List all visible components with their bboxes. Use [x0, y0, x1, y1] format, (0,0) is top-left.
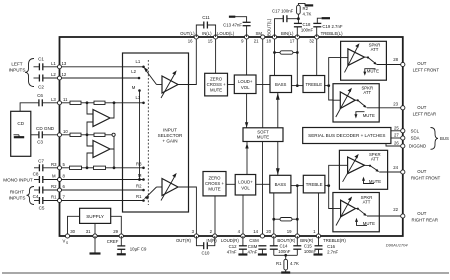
capacitor C13 47nF [223, 17, 250, 37]
svg-text:C2: C2 [38, 85, 44, 90]
svg-text:D96AU1704: D96AU1704 [386, 242, 409, 247]
wire M row to contact [62, 179, 144, 181]
pin 18 BOUT(L) [266, 18, 276, 43]
ground C16 [314, 253, 323, 255]
pin 6 R2 [51, 184, 66, 192]
loud vol block R [235, 175, 256, 196]
pin 21 SM [254, 31, 265, 44]
svg-text:ZERO: ZERO [210, 76, 223, 81]
svg-text:100nF: 100nF [278, 249, 291, 254]
pin 14 CSM [249, 229, 264, 243]
zero cross mute block R [203, 172, 226, 196]
mute arrow 4 [355, 218, 375, 227]
spkr att label 3 [369, 152, 381, 162]
svg-text:31: 31 [86, 229, 91, 234]
svg-text:CROSS +: CROSS + [207, 82, 226, 87]
svg-text:TREBLE(R): TREBLE(R) [323, 238, 346, 243]
input selector block [123, 53, 189, 212]
spkr att label 2 [361, 85, 373, 95]
svg-text:L2: L2 [131, 69, 136, 74]
wire switch 2 to pin 23 [367, 107, 403, 109]
capacitor C11 [196, 15, 215, 37]
svg-text:19: 19 [287, 229, 292, 234]
svg-text:SELECTOR: SELECTOR [158, 133, 183, 138]
svg-text:IN(L): IN(L) [202, 31, 212, 36]
wire L2 row to contact [62, 77, 140, 79]
soft mute block [243, 128, 283, 142]
svg-text:13: 13 [62, 61, 67, 66]
wire junction down to spkr2 input [329, 86, 333, 100]
junction mono row [138, 178, 141, 181]
capacitor C12 47nF [227, 236, 247, 254]
attenuator amp 4 [333, 197, 356, 226]
wire supply to pin 30 [68, 216, 80, 236]
contact R2 [136, 184, 145, 192]
svg-text:RIGHT FRONT: RIGHT FRONT [411, 175, 441, 180]
resistor row5 b [94, 166, 106, 169]
supply block [80, 208, 111, 223]
svg-text:23: 23 [393, 101, 398, 106]
wire zero cross L to loud vol L [228, 84, 235, 86]
page footer rule [2, 272, 449, 274]
svg-text:C15: C15 [304, 243, 312, 248]
pin 10 CD GND [58, 129, 69, 137]
spkr att block 2 left rear [333, 84, 379, 122]
svg-text:SDA: SDA [411, 136, 420, 141]
wire treble L output to right junction [325, 84, 330, 87]
svg-text:C4: C4 [33, 194, 39, 199]
svg-text:CREF: CREF [107, 239, 119, 244]
svg-text:OUT: OUT [417, 61, 426, 66]
svg-text:LOUD+: LOUD+ [238, 179, 253, 184]
svg-text:OUT: OUT [417, 211, 426, 216]
svg-text:LOUD(R): LOUD(R) [221, 238, 239, 243]
svg-text:L2: L2 [51, 72, 56, 77]
capacitor C6 [37, 93, 43, 106]
wire switch 4 to pin 22 [367, 215, 403, 217]
resistor R1 4.7K [276, 255, 299, 272]
svg-text:MUTE: MUTE [369, 179, 381, 184]
left inputs brace [25, 59, 34, 87]
wire op-amp2 output feedback [110, 137, 114, 150]
wire loud vol L to bass L [256, 84, 270, 86]
svg-text:L3: L3 [51, 97, 56, 102]
wire node A to op-amp1 input [87, 103, 93, 114]
svg-text:R3: R3 [136, 161, 142, 166]
treble block L [303, 76, 325, 93]
wire switch 3 to pin 24 [379, 171, 403, 173]
svg-text:MUTE: MUTE [363, 113, 375, 118]
svg-text:26: 26 [394, 141, 399, 146]
bus brace [431, 128, 439, 150]
right inputs brace [27, 187, 35, 205]
ground pin 31 [90, 236, 101, 254]
capacitor C7 [38, 158, 44, 171]
wire serial to pin 25 [391, 130, 403, 132]
capacitor C14 100nF [270, 236, 291, 255]
mute switch 3 [365, 165, 380, 172]
contact M bottom [138, 173, 145, 181]
contact L1 [136, 59, 145, 68]
svg-text:11: 11 [63, 97, 68, 102]
svg-text:29: 29 [113, 229, 118, 234]
svg-text:OUT(R): OUT(R) [176, 238, 192, 243]
svg-text:LOUD(L): LOUD(L) [217, 31, 235, 36]
attenuator amp 1 [341, 43, 365, 72]
pin 2 IN(R) [206, 229, 217, 243]
pin 32 TREBLE(L) [309, 31, 343, 44]
svg-text:DIGGND: DIGGND [409, 144, 426, 149]
svg-text:TREBLE(L): TREBLE(L) [321, 31, 344, 36]
node A [86, 101, 89, 104]
svg-text:M: M [138, 173, 142, 178]
capacitor C16 2.7nF [315, 236, 339, 254]
wire serial to pin 26 [386, 144, 403, 147]
svg-text:R1: R1 [136, 194, 142, 199]
svg-text:CD: CD [17, 121, 24, 126]
mute switch 1 [364, 56, 377, 64]
variable gain amp top [161, 70, 178, 98]
resistor row11 a [70, 101, 81, 104]
resistor row10 b [94, 133, 105, 136]
svg-text:ZERO: ZERO [209, 176, 222, 181]
op-amp U1 [93, 110, 110, 127]
ground C19 [322, 17, 330, 19]
wire amp2 output to pin 3 [178, 187, 196, 236]
svg-text:MUTE: MUTE [210, 87, 222, 92]
pin 27 SDA [394, 133, 420, 141]
svg-text:BASS: BASS [275, 182, 287, 187]
svg-text:C17 100nF: C17 100nF [272, 8, 294, 13]
wire bass R bottom to pin 20 with node [272, 193, 275, 236]
wire bass L to treble L [292, 85, 304, 87]
capacitor C2 [38, 75, 44, 90]
input selector label [158, 128, 183, 144]
zero cross mute block L [205, 73, 228, 96]
wire zero cross R to loud vol R [226, 183, 235, 185]
svg-text:R2: R2 [51, 184, 57, 189]
node E [113, 166, 116, 169]
svg-text:100nF: 100nF [301, 28, 314, 33]
treble block R [303, 175, 325, 193]
wire R1 row to contact [62, 200, 144, 202]
pin 20 [266, 229, 276, 238]
capacitor C8 [33, 171, 43, 183]
svg-text:27: 27 [394, 133, 399, 138]
pin 31 [86, 229, 97, 238]
selector switch arm top [144, 67, 157, 85]
svg-text:12: 12 [62, 72, 67, 77]
pin 24 OUT RIGHT FRONT [393, 165, 440, 180]
svg-text:BIN(L): BIN(L) [281, 31, 294, 36]
svg-text:C8: C8 [33, 171, 39, 176]
bass block R [270, 175, 291, 193]
svg-text:LEFT: LEFT [11, 62, 22, 67]
selector control dashed line [147, 60, 149, 205]
wire M input [34, 179, 60, 181]
wire R1 input [34, 200, 60, 202]
svg-text:S: S [66, 241, 68, 245]
contact R1 [136, 194, 145, 202]
svg-text:BOUT(R): BOUT(R) [277, 238, 295, 243]
resistor row10 a [70, 133, 81, 136]
svg-text:14: 14 [253, 229, 258, 234]
svg-text:+ GAIN: + GAIN [162, 139, 177, 144]
internal reference node circle [112, 133, 115, 136]
svg-text:L3: L3 [136, 95, 141, 100]
wire serial to pin 27 [391, 137, 403, 139]
svg-text:CD GND: CD GND [36, 126, 55, 131]
capacitor C19 2.7nF [313, 18, 343, 37]
spkr att label 1 [369, 43, 381, 53]
svg-text:INPUTS: INPUTS [9, 68, 26, 73]
serial bus decoder block [303, 128, 391, 144]
capacitor C10 [196, 236, 214, 256]
svg-text:ATT: ATT [371, 157, 379, 162]
wire CD GND to pin 10 [31, 126, 60, 135]
spkr att block 1 left front [341, 41, 387, 80]
pin 8 M [52, 174, 66, 182]
RIGHT INPUTS label [9, 189, 26, 200]
svg-text:10µF C9: 10µF C9 [130, 246, 147, 251]
svg-text:10: 10 [63, 129, 68, 134]
pin 12 L2 [51, 72, 67, 80]
svg-text:4.7K: 4.7K [290, 261, 299, 266]
variable gain amp bottom [161, 173, 178, 201]
svg-text:MUTE: MUTE [363, 221, 375, 226]
svg-text:L1: L1 [136, 59, 141, 64]
svg-text:C18: C18 [303, 22, 311, 27]
svg-text:SM: SM [256, 31, 263, 36]
capacitor CSM 47nF [248, 244, 267, 254]
wire switch 1 to pin 28 [377, 64, 403, 66]
svg-text:BASS: BASS [275, 82, 287, 87]
svg-text:BOUT(L): BOUT(L) [267, 18, 272, 36]
ground CSM cap [258, 253, 267, 255]
svg-text:VOL: VOL [241, 185, 250, 190]
svg-text:SOFT: SOFT [257, 129, 269, 134]
capacitor C18 100nF [294, 19, 314, 37]
capacitor C9 10uF [117, 236, 147, 254]
svg-text:R2: R2 [136, 184, 142, 189]
pin 17 BIN(L) [281, 31, 299, 44]
wire supply to pin 29 [111, 216, 122, 236]
pin 5 R3 [51, 162, 66, 170]
svg-text:C19 2.7nF: C19 2.7nF [322, 24, 342, 29]
wire L1 input [34, 66, 60, 68]
svg-text:18: 18 [266, 39, 271, 44]
svg-text:15: 15 [208, 39, 213, 44]
svg-text:C5: C5 [39, 206, 45, 211]
wire bass R to treble R [291, 185, 303, 187]
svg-text:17: 17 [290, 39, 295, 44]
pin 23 OUT LEFT REAR [393, 101, 436, 116]
node C [86, 133, 89, 136]
svg-text:C6: C6 [37, 93, 43, 98]
wire pin19 riser to bass-treble net R [296, 184, 299, 236]
wire pin32 to treble L [316, 37, 318, 76]
svg-text:C1: C1 [38, 57, 44, 62]
svg-text:47nF: 47nF [248, 249, 258, 254]
svg-text:ATT: ATT [363, 200, 371, 205]
svg-text:OUT(L): OUT(L) [180, 31, 195, 36]
svg-text:MUTE: MUTE [257, 135, 269, 140]
LEFT INPUTS label [9, 62, 26, 73]
svg-text:CSM: CSM [249, 238, 259, 243]
svg-text:25: 25 [394, 125, 399, 130]
svg-text:C16: C16 [327, 244, 335, 249]
capacitor C17 100nF [272, 8, 298, 37]
svg-text:INPUTS: INPUTS [9, 195, 26, 200]
attenuator amp 3 [339, 154, 364, 182]
wire pin21 down to soft mute with up arrow [262, 37, 264, 128]
wire zero cross R to pin 2 [214, 196, 216, 236]
svg-text:47nF: 47nF [227, 249, 237, 254]
svg-text:16: 16 [188, 39, 193, 44]
wire arm to amp1 [157, 84, 163, 86]
svg-text:LEFT REAR: LEFT REAR [413, 111, 437, 116]
pin 28 OUT LEFT FRONT [393, 57, 439, 73]
svg-text:R2: R2 [303, 6, 309, 11]
svg-text:CROSS +: CROSS + [205, 181, 224, 186]
wire op-amp2 lower input to node D [87, 153, 93, 168]
svg-text:MUTE: MUTE [208, 187, 220, 192]
wire supply to pin 31 [94, 223, 96, 236]
internal resistor BOUT-BIN R [274, 218, 298, 221]
svg-text:OUT: OUT [417, 169, 426, 174]
pin 30 Vs [63, 229, 76, 245]
long bass column crossing soft mute with down arrow [276, 93, 280, 176]
pin 1 BIN(R) [300, 229, 320, 243]
svg-text:BUS: BUS [440, 136, 449, 141]
wire L2 input [34, 77, 60, 79]
pin 26 DIGGND [394, 141, 426, 149]
svg-text:C7: C7 [38, 158, 44, 163]
svg-text:IN(R): IN(R) [206, 238, 217, 243]
mono riser to top selector [139, 91, 141, 180]
capacitor C1 [38, 57, 44, 71]
svg-text:SUPPLY: SUPPLY [86, 214, 104, 219]
bass block L [270, 76, 292, 93]
svg-text:32: 32 [309, 39, 314, 44]
svg-text:28: 28 [393, 57, 398, 62]
mute arrow 2 [354, 112, 375, 119]
svg-text:ATT: ATT [371, 47, 379, 52]
svg-text:R1: R1 [51, 195, 57, 200]
spkr att label 4 [361, 195, 373, 205]
svg-text:ATT: ATT [363, 90, 371, 95]
svg-text:4.7K: 4.7K [303, 12, 312, 17]
pin 3 OUT(R) [176, 229, 199, 243]
wire pin15 to zero cross L [215, 37, 217, 73]
node C17/R2/C18 [297, 17, 300, 20]
svg-text:INPUT: INPUT [163, 128, 177, 133]
wire pin17 riser to bass-treble net [296, 37, 299, 87]
capacitor C4 [33, 187, 43, 199]
svg-text:30: 30 [70, 229, 75, 234]
node B [113, 101, 116, 104]
svg-text:C13 47nF: C13 47nF [223, 23, 242, 28]
svg-text:C11: C11 [202, 15, 210, 20]
capacitor C3 [37, 131, 43, 144]
pin 25 SCL [394, 125, 420, 133]
wire loudvol L down to soft mute with arrow [245, 94, 248, 128]
contact R3 [136, 161, 145, 169]
svg-text:C10: C10 [202, 251, 210, 256]
contact M top [132, 85, 141, 92]
mute arrow 3 [362, 177, 381, 185]
svg-text:21: 21 [254, 39, 259, 44]
svg-text:SCL: SCL [411, 129, 420, 134]
svg-text:M: M [132, 85, 136, 90]
pin 4 LOUD(R) [221, 229, 245, 243]
svg-text:R1: R1 [276, 261, 282, 266]
IC boundary box [60, 37, 403, 236]
wire op-amp2 output to node E [113, 149, 115, 168]
svg-text:SERIAL BUS DECODER + LATCHES: SERIAL BUS DECODER + LATCHES [308, 133, 385, 138]
ground C13 [229, 16, 235, 18]
wire soft mute bottom to loudvol R with up arrow [245, 142, 248, 175]
svg-text:C3: C3 [37, 140, 43, 145]
spkr att block 4 right rear [333, 193, 379, 232]
svg-text:TREBLE: TREBLE [306, 182, 323, 187]
wire loud vol R to bass R [256, 183, 270, 185]
svg-text:M: M [52, 174, 56, 179]
ground R1 [281, 271, 290, 273]
wire soft mute down to pin 14 [262, 142, 264, 237]
selector switch arm bottom [145, 187, 157, 200]
spkr att block 3 right front [339, 150, 387, 189]
pin 9 LOUD(L) [217, 31, 249, 44]
resistor R2 4.7K [297, 3, 312, 18]
svg-text:20: 20 [266, 229, 271, 234]
pin 7 R1 [51, 195, 66, 203]
svg-text:LEFT FRONT: LEFT FRONT [413, 67, 440, 72]
wire treble R to pin 1 [318, 193, 320, 236]
wire L1 row to contact [62, 66, 144, 68]
svg-text:CSM: CSM [248, 244, 258, 249]
wire R2 input [34, 189, 60, 191]
svg-text:C14: C14 [280, 243, 288, 248]
wire R3 input [34, 167, 60, 169]
internal resistor BOUT-BIN L [275, 51, 298, 54]
resistor row5 a [70, 166, 82, 169]
ground R2 [305, 4, 313, 6]
pin 22 OUT RIGHT REAR [393, 207, 438, 223]
resistor row11 b [94, 101, 105, 104]
wire op-amp1 lower input to node C [87, 122, 93, 135]
svg-text:RIGHT REAR: RIGHT REAR [412, 217, 438, 222]
wire row 10 inside [62, 134, 113, 136]
wire junction up to spkr1 input [329, 58, 341, 86]
wire C14 C15 to R1 [274, 254, 298, 257]
wire arm to amp2 [157, 186, 163, 188]
wire amp1 output to pin 16 [178, 37, 196, 85]
wire treble R output to right junction [325, 184, 330, 187]
pin 13 L1 [51, 61, 67, 69]
wire junction up to spkr3 input [329, 165, 340, 185]
op-amp U2 [93, 141, 110, 158]
pin 11 L3 [51, 97, 68, 105]
svg-text:VOL: VOL [241, 85, 250, 90]
mute switch 2 [355, 99, 367, 108]
contact L2 [131, 69, 140, 79]
wire pin18 riser to bass L with node [273, 37, 276, 76]
wire R2 row to contact [62, 189, 144, 191]
wire CD to C6 to pin 11 [20, 103, 59, 112]
svg-text:RIGHT: RIGHT [10, 189, 24, 194]
ground C12 [238, 253, 247, 255]
